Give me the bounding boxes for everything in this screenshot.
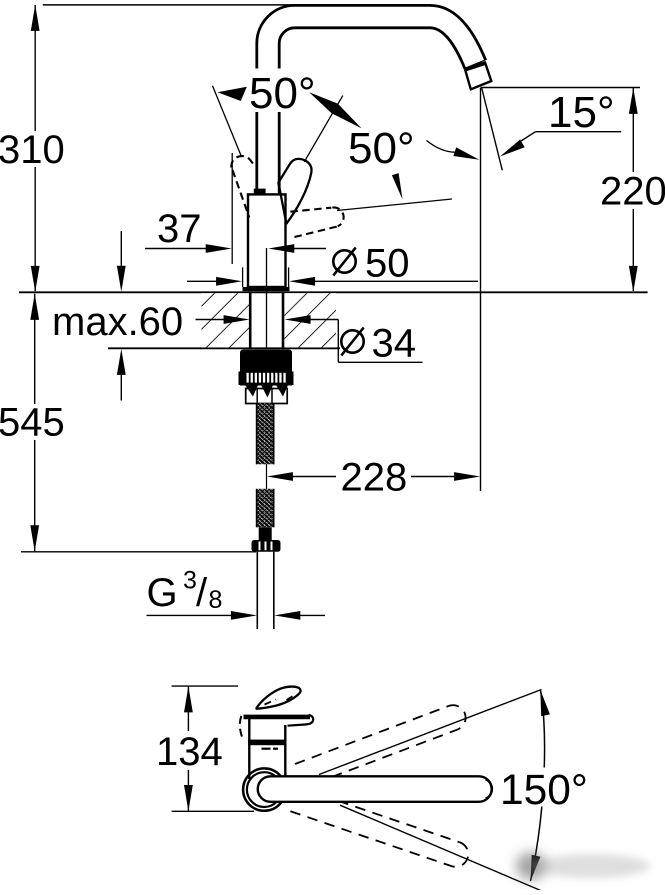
svg-text:34: 34	[372, 321, 417, 365]
label G 3/8	[147, 567, 223, 616]
label dia 50	[333, 241, 409, 285]
dimension line 134	[184, 686, 193, 811]
angle leg line L2 (solid lever axis extended)	[304, 96, 343, 162]
svg-text:50°: 50°	[249, 69, 316, 118]
clamp hooks	[245, 385, 288, 398]
hose end nut	[252, 540, 281, 552]
top extension line (spout top level)	[43, 4, 310, 6]
dashed lever (horizontal right position)	[290, 207, 343, 237]
spout tube (riser + bend + outlet)	[268, 17, 475, 196]
arc arrow top	[540, 690, 550, 717]
dimension 37	[145, 244, 326, 253]
centerline in hose gap	[266, 464, 268, 489]
svg-text:/: /	[196, 571, 208, 615]
centerline of faucet axis	[266, 248, 268, 348]
angle leg upper (150 deg)	[319, 690, 542, 775]
mounting hardware below deck	[239, 350, 294, 386]
base plate (escutcheon)	[243, 287, 290, 291]
deck hatching left of shank	[202, 293, 250, 347]
solid lever (up position)	[278, 159, 311, 224]
dimension dia 50	[187, 277, 478, 286]
deck top line	[19, 291, 648, 293]
arrow at L3 (50 deg no.2)	[392, 173, 403, 199]
svg-text:3: 3	[183, 567, 197, 595]
svg-text:37: 37	[157, 207, 202, 251]
cap left dashed arc	[240, 716, 244, 741]
braided hose upper segment	[257, 404, 274, 465]
svg-text:max.60: max.60	[52, 300, 183, 344]
mounting bracket box	[246, 389, 288, 404]
label 150 deg	[499, 768, 591, 807]
svg-text:228: 228	[341, 455, 408, 499]
svg-text:310: 310	[0, 128, 65, 172]
slanted 15 deg line	[482, 88, 503, 170]
vertical line below spout outlet	[480, 88, 482, 491]
cap right rounded end	[288, 715, 314, 726]
leader for 15 deg	[536, 131, 622, 133]
angle leg line L1 (left lever axis extended)	[213, 86, 242, 157]
150 deg arc	[531, 690, 545, 881]
svg-text:15°: 15°	[548, 88, 615, 137]
dashes below band	[262, 748, 271, 750]
tangent arrows X at L2	[309, 92, 338, 113]
braided hose lower segment	[257, 489, 274, 528]
extension line at handle left extent (37 dim)	[231, 153, 233, 264]
extension lines for dia 50	[242, 267, 244, 287]
shank through deck	[249, 292, 252, 349]
dashed lever (left position)	[231, 156, 253, 217]
extension line bottom (swivel base level)	[172, 810, 254, 812]
svg-text:545: 545	[0, 401, 65, 445]
blade inner dashes	[265, 700, 277, 705]
arc arrow at L1 (50 deg no.1)	[218, 87, 247, 101]
label dia 34	[341, 321, 416, 365]
dimension line 220	[629, 88, 638, 292]
body (cartridge housing)	[248, 194, 286, 287]
dimension max.60 arrows	[117, 231, 126, 401]
joint band	[248, 740, 285, 746]
arc arrow toward vertical line (15 deg)	[427, 141, 455, 153]
swivel rings (body base, side view)	[243, 768, 285, 810]
watermark	[516, 852, 650, 880]
deck bottom line	[108, 347, 340, 349]
svg-text:8: 8	[209, 586, 223, 614]
spout capsule (solid, side/top view)	[258, 776, 492, 802]
svg-text:50°: 50°	[348, 124, 415, 173]
lever blade (side view)	[257, 687, 301, 709]
dimension line 310	[31, 5, 40, 292]
white gap in riser pipe behind 50 deg label	[249, 69, 322, 113]
cap top (thick)	[244, 715, 311, 720]
dimension G3/8 tube	[147, 611, 326, 620]
dimension 228	[267, 472, 480, 481]
dashed spout position lower	[290, 787, 471, 870]
svg-text:134: 134	[156, 730, 223, 774]
set screw tab on body top	[254, 189, 266, 194]
angle leg lower (150 deg)	[340, 805, 541, 890]
faucet body column (side view)	[248, 719, 250, 779]
svg-text:220: 220	[600, 170, 665, 214]
svg-text:150°: 150°	[500, 767, 588, 814]
deck hatching right of shank	[285, 293, 337, 347]
extension line top (lever top level)	[172, 685, 238, 687]
bottom reference line (hose end level)	[21, 551, 256, 553]
angle leg line L3 (horizontal lever axis extended)	[337, 199, 452, 211]
svg-text:G: G	[147, 571, 178, 615]
spout aerator tip	[465, 63, 491, 90]
connection tube G3/8	[257, 552, 274, 629]
inner arc at capsule right end	[486, 780, 493, 799]
arc arrow bottom	[531, 855, 541, 881]
dashed spout position upper	[289, 702, 469, 790]
svg-text:50: 50	[365, 241, 410, 285]
dimension line 545	[30, 294, 39, 552]
extension line at spout outlet level (220)	[481, 87, 641, 89]
hose end crimp	[259, 527, 272, 541]
dimension dia 34	[196, 315, 423, 362]
